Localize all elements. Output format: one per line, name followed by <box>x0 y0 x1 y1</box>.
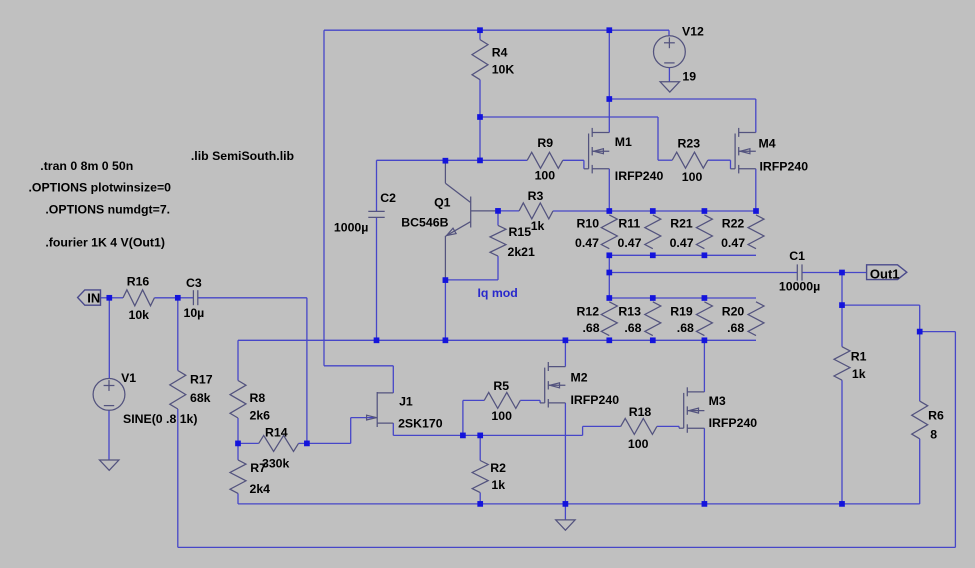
svg-text:R15: R15 <box>509 225 532 239</box>
resistor R15 <box>490 225 535 259</box>
wire <box>101 297 110 299</box>
wire <box>323 30 325 366</box>
junction <box>839 501 845 507</box>
wire <box>802 272 867 274</box>
junction <box>443 158 449 164</box>
junction <box>477 114 483 120</box>
wire <box>479 493 481 504</box>
junction <box>702 252 708 258</box>
wire <box>376 217 378 340</box>
resistor R16 <box>123 275 154 322</box>
svg-text:R5: R5 <box>493 379 509 393</box>
wire <box>755 99 757 133</box>
junction <box>606 96 612 102</box>
junction <box>563 337 569 343</box>
svg-text:2k21: 2k21 <box>508 245 536 259</box>
wire <box>703 340 705 392</box>
svg-text:2k6: 2k6 <box>250 409 271 423</box>
junction <box>702 295 708 301</box>
junction <box>175 295 181 301</box>
resistor R9 <box>527 136 563 182</box>
svg-text:0.47: 0.47 <box>618 236 642 250</box>
resistor R23 <box>672 137 708 185</box>
wire <box>463 399 484 401</box>
resistor R5 <box>484 379 520 423</box>
wire <box>497 211 499 225</box>
junction <box>839 302 845 308</box>
resistor R2 <box>472 461 506 493</box>
junction <box>374 337 380 343</box>
wire <box>393 434 582 436</box>
wire <box>553 210 756 212</box>
wire <box>108 410 110 460</box>
wire <box>609 98 756 100</box>
junction <box>702 208 708 214</box>
wire <box>392 423 394 435</box>
junction <box>650 252 656 258</box>
transistor J1 <box>367 392 443 431</box>
svg-text:R7: R7 <box>250 461 266 475</box>
svg-text:100: 100 <box>682 170 703 184</box>
svg-text:100: 100 <box>535 169 556 183</box>
svg-text:0.47: 0.47 <box>575 236 599 250</box>
resistor R8 <box>230 381 270 423</box>
svg-text:R8: R8 <box>250 391 266 405</box>
resistor R4 <box>472 40 514 80</box>
svg-text:0.47: 0.47 <box>670 236 694 250</box>
svg-text:R22: R22 <box>722 216 745 230</box>
junction <box>650 208 656 214</box>
svg-text:R16: R16 <box>127 275 150 289</box>
junction <box>753 208 759 214</box>
junction <box>106 295 112 301</box>
wire <box>703 428 705 504</box>
resistor R1 <box>834 347 867 381</box>
svg-text:R17: R17 <box>190 373 213 387</box>
wire <box>539 400 541 403</box>
transistor M4 <box>730 128 808 173</box>
junction <box>606 27 612 33</box>
svg-text:SINE(0 .8 1k): SINE(0 .8 1k) <box>123 412 198 426</box>
svg-text:R12: R12 <box>577 305 600 319</box>
junction <box>460 433 466 439</box>
svg-text:Out1: Out1 <box>870 266 900 281</box>
wire <box>351 417 378 419</box>
svg-text:1k: 1k <box>491 478 505 492</box>
svg-text:.68: .68 <box>583 321 600 335</box>
wire <box>563 159 584 161</box>
wire <box>479 435 481 460</box>
junction <box>917 329 923 335</box>
wire <box>842 304 920 306</box>
wire <box>307 442 351 444</box>
svg-text:IRFP240: IRFP240 <box>615 169 664 183</box>
svg-text:.68: .68 <box>727 321 744 335</box>
svg-text:68k: 68k <box>190 391 211 405</box>
wire <box>919 305 921 332</box>
svg-text:.lib SemiSouth.lib: .lib SemiSouth.lib <box>191 149 294 163</box>
resistor R20 <box>722 302 764 336</box>
node Out1 <box>867 265 907 282</box>
svg-text:.fourier 1K 4 V(Out1): .fourier 1K 4 V(Out1) <box>45 236 165 250</box>
svg-text:IRFP240: IRFP240 <box>760 159 809 173</box>
svg-text:V12: V12 <box>682 25 704 39</box>
junction <box>606 208 612 214</box>
wire <box>668 68 670 82</box>
svg-text:R14: R14 <box>265 426 288 440</box>
resistor R11 <box>618 215 661 250</box>
resistor R21 <box>670 215 713 250</box>
svg-text:0.47: 0.47 <box>721 236 745 250</box>
junction <box>606 252 612 258</box>
junction <box>495 208 501 214</box>
wire <box>324 365 393 367</box>
transistor Q1 <box>401 161 498 280</box>
wire <box>564 403 566 504</box>
svg-text:V1: V1 <box>121 371 136 385</box>
wire <box>392 366 394 393</box>
junction <box>477 501 483 507</box>
svg-text:1k: 1k <box>852 367 866 381</box>
svg-text:.68: .68 <box>624 321 641 335</box>
wire <box>608 169 610 211</box>
svg-text:R10: R10 <box>577 216 600 230</box>
wire <box>954 332 956 548</box>
wire <box>178 297 194 299</box>
wire <box>108 298 110 379</box>
wire <box>678 426 680 428</box>
wire <box>306 298 308 444</box>
svg-text:Q1: Q1 <box>434 195 451 209</box>
wire <box>520 399 540 401</box>
wire <box>668 30 670 36</box>
svg-text:R3: R3 <box>528 189 544 203</box>
wire <box>479 30 481 39</box>
wire <box>154 297 177 299</box>
wire <box>919 439 921 504</box>
wire <box>299 442 307 444</box>
wire <box>462 400 464 435</box>
resistor R10 <box>575 215 617 250</box>
svg-text:.68: .68 <box>677 321 694 335</box>
wire <box>324 29 669 31</box>
node IN <box>78 290 101 306</box>
wire <box>237 443 239 460</box>
wire <box>498 210 519 212</box>
junction <box>606 295 612 301</box>
capacitor C1 <box>779 249 820 294</box>
wire <box>657 117 659 160</box>
svg-text:100: 100 <box>491 409 512 423</box>
svg-text:1000µ: 1000µ <box>334 221 368 235</box>
svg-text:19: 19 <box>682 70 696 84</box>
svg-text:C3: C3 <box>186 276 202 290</box>
svg-text:M1: M1 <box>615 135 632 149</box>
wire <box>177 298 179 371</box>
wire <box>583 425 621 427</box>
wire <box>237 418 239 443</box>
svg-text:C2: C2 <box>380 191 396 205</box>
wire <box>920 331 956 333</box>
svg-text:R20: R20 <box>722 305 745 319</box>
resistor R14 <box>259 426 299 471</box>
junction <box>650 295 656 301</box>
svg-text:1k: 1k <box>531 219 545 233</box>
junction <box>235 441 241 447</box>
svg-text:J1: J1 <box>399 394 413 408</box>
svg-text:.tran 0 8m 0 50n: .tran 0 8m 0 50n <box>40 159 133 173</box>
wire <box>564 340 566 366</box>
svg-text:M3: M3 <box>709 394 726 408</box>
capacitor C2 <box>334 191 396 235</box>
wire <box>109 297 123 299</box>
svg-text:R18: R18 <box>629 405 652 419</box>
wire <box>583 160 585 169</box>
wire <box>377 159 528 161</box>
svg-text:R11: R11 <box>618 216 640 230</box>
junction <box>702 501 708 507</box>
resistor R3 <box>519 189 553 233</box>
svg-text:R2: R2 <box>490 461 506 475</box>
svg-text:M2: M2 <box>571 371 588 385</box>
voltage source V1 <box>93 371 197 426</box>
wire <box>479 117 481 160</box>
wire <box>376 160 378 211</box>
junction <box>563 501 569 507</box>
junction <box>443 337 449 343</box>
wire <box>609 254 756 256</box>
svg-text:8: 8 <box>930 428 937 442</box>
wire <box>657 425 679 427</box>
svg-text:M4: M4 <box>759 137 776 151</box>
svg-text:10K: 10K <box>492 62 515 76</box>
wire <box>658 159 672 161</box>
wire <box>237 493 239 504</box>
wire <box>238 503 920 505</box>
wire <box>444 280 446 340</box>
svg-text:R9: R9 <box>537 136 553 150</box>
junction <box>477 433 483 439</box>
junction <box>650 337 656 343</box>
wire <box>238 339 756 341</box>
resistor R18 <box>621 405 657 451</box>
wire <box>841 380 843 504</box>
wire <box>730 160 732 169</box>
wire <box>238 442 259 444</box>
wire <box>350 418 352 444</box>
junction <box>839 270 845 276</box>
junction <box>304 441 310 447</box>
svg-text:2k4: 2k4 <box>250 482 271 496</box>
transistor M2 <box>540 362 619 408</box>
junction <box>477 27 483 33</box>
wire <box>480 116 658 118</box>
svg-text:IRFP240: IRFP240 <box>571 393 620 407</box>
voltage source V12 <box>654 25 705 84</box>
wire <box>177 409 179 547</box>
svg-text:R21: R21 <box>670 216 693 230</box>
wire <box>608 30 610 132</box>
wire <box>237 340 239 380</box>
svg-text:R1: R1 <box>851 349 867 363</box>
wire <box>479 80 481 117</box>
capacitor C3 <box>184 276 205 320</box>
wire <box>582 426 584 435</box>
svg-text:2SK170: 2SK170 <box>398 417 443 431</box>
resistor R6 <box>912 401 944 442</box>
svg-text:10000µ: 10000µ <box>779 279 820 293</box>
wire <box>178 546 956 548</box>
wire <box>609 297 756 299</box>
svg-text:IRFP240: IRFP240 <box>709 416 758 430</box>
resistor R12 <box>577 302 618 336</box>
svg-text:R19: R19 <box>670 305 693 319</box>
svg-text:100: 100 <box>628 437 649 451</box>
resistor R13 <box>618 302 660 336</box>
resistor R7 <box>230 460 270 496</box>
svg-text:Iq mod: Iq mod <box>478 286 518 300</box>
wire <box>564 504 566 520</box>
svg-text:R6: R6 <box>928 408 944 422</box>
wire <box>755 169 757 211</box>
resistor R22 <box>721 215 764 250</box>
wire <box>708 159 731 161</box>
wire <box>919 332 921 402</box>
svg-text:10µ: 10µ <box>184 306 205 320</box>
wire <box>609 272 797 274</box>
wire <box>198 297 307 299</box>
ground <box>660 82 679 92</box>
svg-text:C1: C1 <box>789 249 805 263</box>
svg-text:330k: 330k <box>262 456 290 470</box>
svg-text:10k: 10k <box>129 308 150 322</box>
wire <box>497 256 499 280</box>
svg-text:.OPTIONS plotwinsize=0: .OPTIONS plotwinsize=0 <box>29 181 172 195</box>
junction <box>606 337 612 343</box>
wire <box>608 255 610 298</box>
svg-text:R13: R13 <box>618 305 641 319</box>
transistor M1 <box>584 128 664 183</box>
svg-text:R4: R4 <box>492 46 508 60</box>
junction <box>443 277 449 283</box>
ground <box>556 520 575 530</box>
junction <box>606 270 612 276</box>
svg-text:BC546B: BC546B <box>401 215 448 229</box>
wire <box>841 273 843 347</box>
ground <box>100 460 119 470</box>
resistor R17 <box>170 371 213 410</box>
transistor M3 <box>679 387 757 433</box>
resistor R19 <box>670 302 712 336</box>
wire <box>445 279 498 281</box>
svg-text:IN: IN <box>87 291 100 306</box>
junction <box>702 337 708 343</box>
junction <box>477 158 483 164</box>
svg-text:R23: R23 <box>678 137 701 151</box>
svg-text:.OPTIONS numdgt=7.: .OPTIONS numdgt=7. <box>45 202 170 216</box>
